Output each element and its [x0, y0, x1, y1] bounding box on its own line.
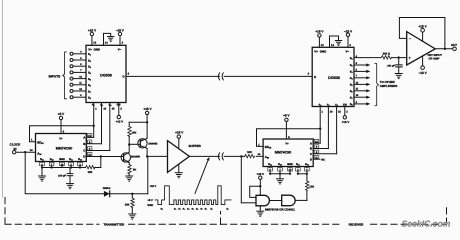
U1 pin A1 label — [100, 104, 107, 111]
U3 output S6 pin 11 arrow — [350, 88, 371, 94]
ground symbol at U1 pin 14 — [108, 37, 114, 42]
svg-text:GND: GND — [320, 49, 326, 53]
op-amp +15V terminal — [419, 24, 428, 41]
U3 pin A2 wire to U4 output C — [335, 104, 341, 154]
wire: diode node up to buffer input node — [131, 158, 148, 195]
svg-text:V+: V+ — [59, 137, 63, 140]
wire: clock node down and right to sync diode — [25, 152, 104, 194]
IC U1 DG508 transmitter multiplexer body — [86, 45, 126, 102]
svg-text:V+: V+ — [285, 142, 289, 145]
svg-text:BUFFER: BUFFER — [189, 144, 202, 148]
svg-text:13: 13 — [93, 42, 96, 45]
svg-text:2: 2 — [346, 111, 348, 114]
buffer amplifier triangle — [168, 141, 202, 173]
IC U3 DG508 receiver multiplexer body — [308, 47, 354, 106]
capacitor .001 uF — [387, 58, 402, 74]
svg-text:MM74C90: MM74C90 — [56, 146, 73, 150]
svg-text:S6: S6 — [88, 84, 91, 88]
junction receiver signal node — [240, 155, 242, 157]
resistor 10K pulldown on output node — [125, 194, 135, 214]
svg-text:R92: R92 — [50, 158, 54, 161]
svg-text:1: 1 — [258, 143, 260, 146]
svg-text:14: 14 — [258, 153, 261, 156]
svg-text:MM74C08 OR CD4011: MM74C08 OR CD4011 — [265, 207, 295, 211]
svg-text:6: 6 — [356, 68, 358, 71]
svg-text:S1: S1 — [88, 53, 91, 57]
svg-text:16: 16 — [330, 111, 333, 114]
U2 feedback wire BD-IN to A output — [30, 126, 94, 142]
gate G1 bottom input wire — [241, 202, 256, 204]
wire: line break to receiver node — [224, 155, 244, 157]
U1 GND pin 14 jog wire — [104, 33, 111, 45]
svg-text:GND: GND — [94, 47, 100, 51]
junction clock node — [24, 151, 26, 153]
+15V terminal for Q2 stage — [143, 107, 152, 138]
svg-text:15: 15 — [338, 111, 341, 114]
wire: Q2 collector node to buffer input — [147, 155, 167, 157]
waveform pulse train trace — [155, 186, 231, 205]
svg-text:14: 14 — [105, 42, 108, 45]
U4 left pin labels — [258, 143, 272, 159]
U4 reset bus R0 — [297, 173, 308, 175]
U4 output B pin 9 wire to U3 A1 — [310, 145, 328, 151]
svg-text:S₈: S₈ — [161, 208, 163, 211]
ground symbol at U4 bus — [277, 179, 284, 184]
U4 output A pin 12 wire to U3 A0 — [310, 139, 320, 145]
svg-text:S7: S7 — [88, 90, 91, 94]
svg-text:5: 5 — [356, 62, 358, 65]
line break symbol on buffer line — [218, 153, 223, 160]
input terminal S7 — [70, 88, 91, 94]
U1 V- pin 3 supply -15V terminal — [116, 28, 125, 45]
resistor 10K receiver reset — [306, 174, 315, 201]
svg-text:S8: S8 — [88, 97, 91, 101]
op-amp feedback loop wire — [399, 18, 445, 49]
wire: U1 A1 to U2 output B — [86, 103, 101, 144]
resistor 10K receiver input — [245, 151, 264, 158]
svg-text:3: 3 — [349, 44, 351, 47]
ground symbol below output pulldown — [129, 214, 136, 219]
svg-text:GND: GND — [287, 163, 293, 166]
U3 V- pin 3 supply -15V terminal — [344, 29, 353, 47]
wire: U1 A0 to U2 output A — [86, 103, 95, 138]
U3 V+ pin 13 supply +15V terminal — [315, 29, 324, 47]
svg-text:10K: 10K — [247, 151, 252, 154]
U2 bottom pin number boxes 6 7 10 2 3 — [40, 162, 83, 168]
svg-text:DG508: DG508 — [100, 74, 112, 78]
U3 output S2 pin 5 arrow — [350, 62, 371, 68]
svg-text:12: 12 — [356, 81, 359, 84]
svg-text:13: 13 — [321, 44, 324, 47]
svg-text:R01: R01 — [69, 158, 73, 161]
svg-text:6: 6 — [80, 63, 82, 66]
svg-text:+5 V: +5 V — [58, 112, 65, 116]
svg-text:S₈: S₈ — [205, 208, 207, 211]
svg-text:7: 7 — [80, 69, 82, 72]
svg-text:12: 12 — [79, 75, 82, 78]
gate G1 ground — [257, 206, 264, 217]
U2 output B pin 9 — [83, 140, 92, 146]
svg-text:+: + — [409, 56, 411, 60]
svg-text:S3: S3 — [350, 71, 353, 75]
svg-text:GND: GND — [147, 204, 153, 207]
U3 output S4 pin 7 arrow — [350, 75, 371, 81]
input terminal S2 — [70, 57, 91, 63]
AND gate G2 — [282, 195, 295, 206]
waveform +15/+5/GND labels — [147, 185, 156, 207]
svg-text:−: − — [409, 37, 411, 41]
U1 output D pin 8 — [123, 72, 130, 78]
svg-text:−15 V: −15 V — [419, 71, 428, 75]
U2 output A pin 12 — [83, 134, 92, 140]
U1 pin A0 label — [92, 104, 97, 111]
svg-text:NC: NC — [321, 158, 325, 161]
capacitor 100uF — [58, 168, 73, 184]
resistor 200 ohm — [354, 52, 407, 59]
wire: receiver node down to gate 1 input — [240, 156, 242, 202]
svg-text:S₁: S₁ — [210, 208, 212, 211]
svg-text:+15 V: +15 V — [116, 120, 124, 124]
U4 output C pin 8 wire to U3 A2 — [310, 150, 337, 156]
dashed boundary receiver box — [221, 205, 447, 225]
svg-text:15: 15 — [112, 108, 115, 111]
svg-text:D: D — [314, 75, 316, 79]
svg-text:1: 1 — [322, 111, 324, 114]
svg-text:2N4400: 2N4400 — [131, 155, 141, 158]
svg-text:3: 3 — [122, 42, 124, 45]
U3 output S5 pin 12 arrow — [350, 81, 371, 87]
svg-text:R01: R01 — [296, 163, 300, 166]
ground symbol at U2 reset bus — [39, 176, 46, 181]
svg-text:200 Ω: 200 Ω — [383, 52, 391, 55]
U3 output S1 pin 4 — [350, 55, 358, 61]
svg-text:+15 V: +15 V — [88, 28, 97, 32]
ground symbol at Q1 emitter — [126, 176, 133, 181]
U4 bottom pin number boxes 6 7 10 2 3 — [268, 167, 309, 174]
svg-text:5K: 5K — [133, 168, 136, 171]
svg-text:+5 V: +5 V — [147, 199, 153, 202]
svg-text:100 µF: 100 µF — [58, 175, 66, 178]
U2 left pin labels — [30, 139, 44, 156]
svg-text:GND: GND — [59, 158, 65, 161]
U3 output S7 pin 10 arrow — [350, 94, 371, 100]
svg-text:S5: S5 — [350, 84, 353, 88]
ground symbol below capacitor — [395, 74, 402, 79]
svg-text:10K: 10K — [88, 171, 93, 174]
svg-text:V−: V− — [118, 47, 122, 51]
svg-text:BDIN: BDIN — [37, 140, 44, 145]
svg-text:C: C — [310, 152, 313, 156]
svg-text:S2: S2 — [88, 59, 91, 63]
svg-text:+15 V: +15 V — [143, 107, 152, 111]
U3 pin A1 wire to U4 output B — [327, 104, 333, 149]
input terminal S8 — [70, 94, 91, 100]
svg-text:7: 7 — [356, 75, 358, 78]
U3 output S8 pin 9 arrow — [350, 101, 371, 107]
svg-text:2: 2 — [120, 108, 122, 111]
input terminal S4 — [70, 69, 92, 75]
svg-text:AIN: AIN — [265, 155, 270, 160]
svg-text:R92: R92 — [278, 163, 282, 166]
resistor 5K at Q1 emitter — [128, 165, 137, 177]
svg-text:S₁: S₁ — [226, 208, 228, 211]
U4 +5V supply terminal — [283, 114, 290, 139]
svg-text:V+: V+ — [314, 49, 318, 53]
svg-text:+15 V: +15 V — [149, 185, 156, 188]
svg-text:16: 16 — [103, 108, 106, 111]
svg-text:S₄: S₄ — [187, 208, 190, 211]
svg-text:TRANSMITTER: TRANSMITTER — [103, 223, 125, 227]
buffer ground — [175, 164, 182, 178]
svg-text:S₇: S₇ — [200, 208, 202, 211]
op-amp U5 triangle — [407, 32, 443, 65]
svg-text:D: D — [83, 155, 85, 159]
svg-text:+15 V: +15 V — [315, 29, 324, 33]
input terminal S6 — [70, 82, 91, 88]
U3 pin EN tied to +15V — [342, 104, 350, 124]
svg-text:.001 µF: .001 µF — [387, 64, 396, 67]
svg-text:R91: R91 — [40, 158, 44, 161]
svg-text:−15 V: −15 V — [344, 29, 353, 33]
ground symbol at U3 pin 14 — [335, 41, 341, 46]
wire: clock terminal to U2 A-IN pin 14 — [16, 151, 36, 153]
svg-text:+15 V: +15 V — [257, 172, 265, 176]
svg-text:DG508: DG508 — [328, 76, 340, 80]
svg-text:10: 10 — [79, 88, 82, 91]
svg-text:R02: R02 — [78, 158, 82, 161]
waveform slot labels — [161, 208, 229, 211]
IC U4 MM74C90 receiver counter body — [263, 136, 313, 167]
svg-text:B: B — [310, 147, 312, 151]
svg-text:MM74C90: MM74C90 — [275, 151, 292, 155]
wire: line break to U3 D input — [224, 75, 312, 77]
svg-text:1: 1 — [95, 108, 97, 111]
svg-text:9: 9 — [356, 101, 358, 104]
gate G1 +15V terminal and loop to top input — [250, 172, 264, 198]
svg-text:+15 V: +15 V — [342, 120, 350, 124]
svg-text:OUT: OUT — [451, 43, 457, 47]
svg-text:1N914: 1N914 — [103, 187, 111, 190]
transistor Q1 2N4400 — [121, 143, 140, 164]
svg-text:S1: S1 — [350, 57, 353, 61]
U2 output C pin 8 — [83, 147, 92, 153]
input terminal S5 — [70, 75, 91, 81]
svg-text:S4: S4 — [350, 77, 354, 81]
svg-text:S3: S3 — [88, 66, 91, 70]
svg-text:V+: V+ — [88, 47, 92, 51]
U1 V+ pin 13 supply +15V terminal — [88, 28, 97, 45]
svg-text:BDIN: BDIN — [265, 145, 272, 150]
svg-text:D: D — [123, 74, 125, 78]
U1 pin A2 label — [108, 104, 115, 111]
svg-text:OP AMP: OP AMP — [429, 57, 440, 61]
transistor Q2 2N4402 — [129, 138, 158, 157]
svg-text:8: 8 — [128, 72, 130, 75]
svg-text:11: 11 — [356, 88, 359, 91]
svg-text:+5 V: +5 V — [283, 114, 290, 118]
U2 +5V supply terminal — [58, 112, 65, 134]
svg-text:R91: R91 — [268, 163, 272, 166]
svg-text:AIN: AIN — [37, 151, 42, 156]
resistor 10K counter reset — [80, 157, 101, 174]
TO OTHER AMPLIFIERS brace — [375, 64, 397, 106]
op-amp output wire and OUT terminal — [435, 43, 457, 51]
U4 output D pin 11 NC — [310, 156, 325, 162]
svg-text:11: 11 — [79, 82, 82, 85]
annotation arrow from waveform to buffer line — [195, 157, 210, 194]
input terminal S3 — [70, 63, 91, 69]
svg-text:S₆: S₆ — [196, 208, 198, 211]
wire: buffer output to line break — [189, 155, 219, 157]
svg-text:10K: 10K — [125, 204, 130, 207]
svg-text:14: 14 — [331, 44, 334, 47]
svg-text:S₁: S₁ — [174, 208, 176, 211]
svg-text:INPUTS: INPUTS — [49, 75, 61, 79]
svg-text:2N4402: 2N4402 — [148, 142, 158, 145]
svg-text:8: 8 — [308, 73, 310, 76]
svg-text:+15 V: +15 V — [419, 24, 428, 28]
svg-text:RECEIVER: RECEIVER — [349, 223, 365, 227]
svg-text:S₂: S₂ — [178, 208, 180, 211]
IC U2 MM74C90 transmitter counter body — [36, 130, 87, 161]
wire: G1 output to G2 input — [270, 200, 282, 202]
svg-text:14: 14 — [30, 149, 33, 152]
svg-text:V−: V− — [346, 49, 350, 53]
U2 output D pin 11 wire to Q1 base — [83, 153, 123, 159]
svg-text:9: 9 — [80, 94, 82, 97]
svg-text:S₅: S₅ — [191, 208, 193, 211]
svg-text:10K: 10K — [132, 131, 137, 134]
junction op-amp input node — [398, 56, 400, 58]
svg-text:4: 4 — [80, 51, 82, 54]
svg-text:S4: S4 — [88, 72, 92, 76]
svg-text:R02: R02 — [305, 163, 309, 166]
svg-text:S8: S8 — [350, 103, 353, 107]
svg-text:S2: S2 — [350, 64, 353, 68]
U3 pin A0 wire to U4 output A — [318, 104, 323, 144]
svg-text:S6: S6 — [350, 90, 353, 94]
U1 pin EN tied to +15V — [116, 103, 124, 124]
wire: G2 output to reset resistor — [295, 199, 307, 201]
U4 ground bus — [269, 173, 291, 179]
svg-text:B: B — [83, 142, 85, 146]
svg-text:AMPLIFIERS: AMPLIFIERS — [380, 84, 398, 88]
svg-text:S5: S5 — [88, 78, 91, 82]
resistor 10K collector pull-up — [128, 122, 147, 144]
svg-text:10K: 10K — [309, 185, 314, 188]
U4 bottom pin labels — [268, 163, 309, 166]
svg-text:A: A — [310, 141, 313, 145]
svg-text:S₃: S₃ — [183, 208, 185, 211]
input terminal S1 — [70, 51, 91, 57]
line break symbol on mux line — [218, 73, 223, 80]
svg-text:5: 5 — [80, 57, 82, 60]
AND gate G1 — [256, 195, 269, 206]
wire: U1 A2 to U2 output C — [86, 103, 110, 151]
svg-text:−15 V: −15 V — [116, 28, 125, 32]
U3 GND pin 14 jog wire — [330, 36, 339, 47]
svg-text:S7: S7 — [350, 96, 353, 100]
CLOCK IN terminal — [10, 143, 21, 154]
op-amp -15V terminal — [419, 56, 428, 75]
diode D1 1N914 sync — [103, 187, 148, 197]
buffer +15V terminal — [175, 131, 184, 149]
svg-text:1: 1 — [31, 139, 33, 142]
U2 bottom ground bus — [41, 166, 81, 176]
wire: U1 D output to line break — [126, 75, 219, 77]
svg-text:SeekIC.com: SeekIC.com — [402, 219, 451, 229]
svg-text:+15 V: +15 V — [175, 131, 184, 135]
INPUTS brace — [49, 52, 67, 99]
ground symbol below 100uF — [67, 184, 74, 189]
U2 bottom pin labels R9/R0/GND — [40, 158, 82, 161]
U3 output S3 pin 6 arrow — [350, 68, 371, 74]
svg-text:10: 10 — [356, 94, 359, 97]
U4 feedback wire BD-IN to A output — [257, 129, 321, 147]
svg-text:D: D — [310, 157, 312, 161]
dashed boundary transmitter box — [5, 198, 221, 225]
